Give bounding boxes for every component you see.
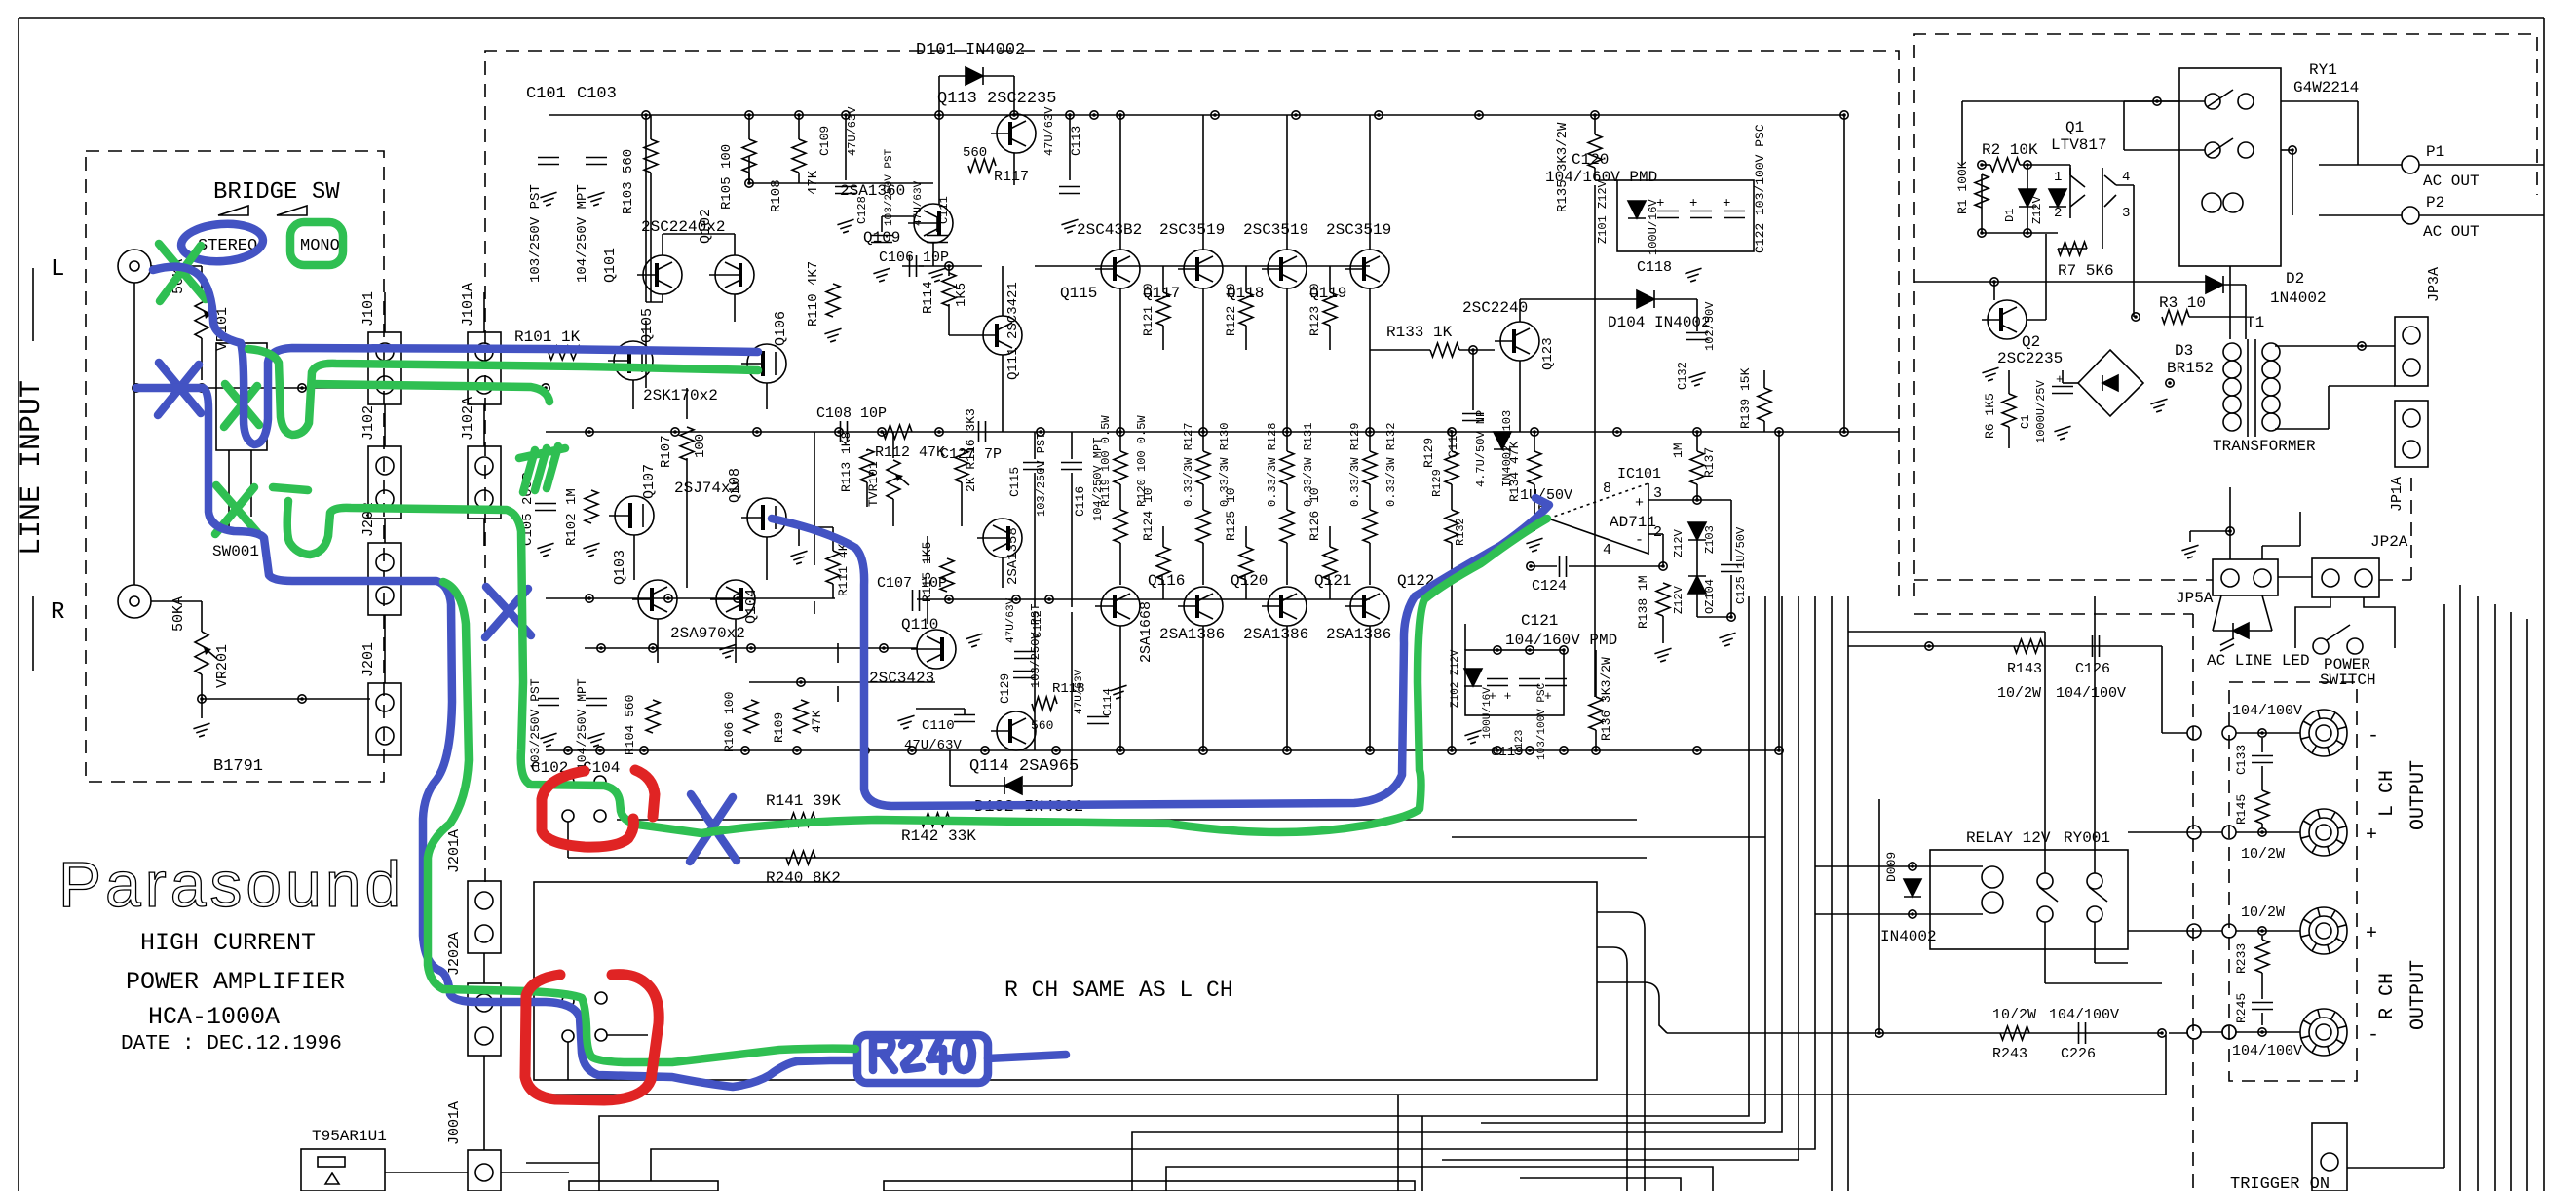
svg-text:JP1A: JP1A	[2389, 477, 2406, 512]
svg-text:T95AR1U1: T95AR1U1	[312, 1128, 387, 1145]
svg-text:Q1: Q1	[2065, 119, 2084, 136]
svg-text:Q123: Q123	[1540, 337, 1556, 370]
svg-text:D101 IN4002: D101 IN4002	[916, 41, 1025, 59]
transistor Q117	[1178, 250, 1223, 288]
transistor Q119	[1345, 250, 1389, 288]
annotation red loop around C102/C104	[542, 770, 655, 847]
svg-text:SW001: SW001	[212, 543, 259, 560]
svg-text:2SC43B2: 2SC43B2	[1077, 221, 1142, 239]
resistor Q118l	[1280, 510, 1294, 543]
ground	[1685, 268, 1701, 282]
annotation green path to R240 callout	[428, 582, 855, 1062]
svg-text:R136 3K3/2W: R136 3K3/2W	[1599, 657, 1613, 741]
diode D1b	[2049, 189, 2066, 207]
resistor R122	[1239, 292, 1253, 326]
R out -	[2300, 1009, 2347, 1056]
svg-text:C121: C121	[1521, 612, 1558, 630]
svg-text:C129: C129	[998, 673, 1012, 704]
P2 connector	[2402, 207, 2419, 224]
svg-text:C101: C101	[526, 85, 566, 103]
svg-text:AC LINE LED: AC LINE LED	[2207, 652, 2310, 670]
annotation blue line from R240 box	[988, 1055, 1066, 1058]
annotation blue R240 text	[873, 1039, 972, 1071]
svg-text:1000U/25V: 1000U/25V	[2034, 379, 2048, 443]
svg-text:Q121: Q121	[1314, 572, 1351, 590]
svg-text:IN4002: IN4002	[1880, 928, 1937, 945]
resistor R126	[1323, 547, 1337, 580]
resistor R123	[1323, 292, 1337, 326]
svg-text:Q103: Q103	[612, 550, 628, 585]
connector J101	[368, 332, 401, 404]
svg-text:R101 1K: R101 1K	[514, 328, 581, 346]
capacitor C103	[586, 158, 607, 165]
annotation green path J102A to opamp (long)	[273, 487, 1547, 833]
svg-text:47K: 47K	[810, 710, 824, 733]
svg-text:8: 8	[1603, 480, 1611, 497]
wire L jack to VR101	[151, 265, 202, 267]
svg-text:2SA970x2: 2SA970x2	[670, 625, 745, 642]
svg-text:104/100V: 104/100V	[2049, 1007, 2119, 1023]
svg-text:J102: J102	[360, 405, 377, 441]
resistor R102	[585, 490, 598, 523]
transistor Q116	[1095, 587, 1140, 626]
capacitor C119a	[1487, 679, 1508, 686]
diode Z101	[1628, 201, 1646, 218]
annotation green box around MONO	[290, 222, 343, 265]
svg-text:J101A: J101A	[460, 283, 476, 327]
svg-text:C1: C1	[2019, 415, 2032, 429]
svg-text:JP5A: JP5A	[2176, 590, 2214, 607]
ground	[1688, 372, 1705, 386]
resistor Q119l	[1363, 510, 1377, 543]
transistor Q107	[609, 496, 654, 535]
svg-text:10/2W: 10/2W	[2241, 904, 2285, 921]
svg-text:Z12V: Z12V	[1672, 585, 1686, 614]
connector J102	[368, 446, 401, 519]
input net horizontal	[136, 387, 546, 389]
ground	[928, 268, 945, 282]
capacitor C111	[927, 236, 948, 243]
resistor Q115u	[1114, 451, 1127, 484]
svg-text:C125 1U/50V: C125 1U/50V	[1734, 526, 1748, 604]
svg-text:Q114 2SA965: Q114 2SA965	[969, 757, 1079, 776]
svg-text:R106 100: R106 100	[722, 692, 737, 752]
svg-text:R119 100 0.5W: R119 100 0.5W	[1099, 415, 1113, 507]
svg-text:R145: R145	[2234, 794, 2249, 825]
resistor R132a	[1445, 510, 1458, 543]
ground	[587, 192, 604, 206]
resistor R129a	[1445, 451, 1458, 484]
resistor R108	[792, 139, 806, 173]
diode D1	[2019, 189, 2036, 207]
wire L jack down to R jack	[133, 283, 135, 585]
diode D101	[966, 67, 983, 85]
svg-text:R117: R117	[994, 169, 1029, 185]
annotation green X at SW001	[215, 485, 257, 534]
svg-text:R112 47K: R112 47K	[875, 444, 945, 461]
svg-text:1K5: 1K5	[954, 283, 969, 307]
svg-text:J102A: J102A	[460, 397, 476, 441]
svg-text:T1: T1	[2246, 314, 2264, 331]
svg-text:560: 560	[963, 145, 987, 161]
ground	[719, 644, 736, 658]
svg-text:2SC2235: 2SC2235	[1997, 350, 2063, 367]
resistor R107	[680, 427, 694, 460]
resistor R104	[646, 700, 660, 733]
ground	[2150, 399, 2167, 412]
svg-text:R137: R137	[1702, 447, 1717, 478]
resistor R114	[942, 273, 956, 306]
svg-text:10/2W: 10/2W	[1992, 1007, 2036, 1023]
resistor Q115l	[1114, 510, 1127, 543]
transistor Q101	[637, 255, 682, 294]
svg-text:100U/16V: 100U/16V	[1482, 687, 1494, 739]
capacitor C109	[835, 187, 856, 194]
ground	[824, 328, 841, 342]
J202A pads	[562, 992, 607, 1042]
svg-text:R113 1K8: R113 1K8	[839, 432, 853, 492]
resistor R233	[2255, 940, 2269, 973]
annotation blue R240 callout box	[857, 1035, 988, 1083]
J column wires	[385, 292, 484, 683]
svg-text:104/100V: 104/100V	[2232, 1043, 2302, 1059]
svg-text:104/250V MPT: 104/250V MPT	[575, 678, 589, 770]
ground	[897, 715, 914, 729]
diode D3d	[2102, 375, 2118, 391]
svg-text:Q106: Q106	[773, 311, 789, 346]
bottom pcb boxes	[569, 1181, 1415, 1191]
svg-text:2K R116 3K3: 2K R116 3K3	[964, 408, 978, 492]
capacitor C124	[1560, 556, 1567, 577]
svg-text:R138 1M: R138 1M	[1636, 575, 1650, 629]
resistor R143	[2014, 639, 2043, 653]
ground	[2054, 426, 2070, 440]
svg-text:C106 10P: C106 10P	[879, 250, 949, 266]
annotation blue X at R141	[690, 794, 737, 862]
svg-text:-: -	[1635, 532, 1644, 549]
svg-text:D3: D3	[2175, 342, 2193, 360]
connector J202	[368, 543, 401, 615]
ground	[837, 219, 853, 233]
resistor Q117l	[1196, 510, 1210, 543]
svg-text:Q111 2SC3421: Q111 2SC3421	[1005, 282, 1021, 380]
svg-text:LINE INPUT: LINE INPUT	[16, 380, 49, 556]
resistor VR101	[195, 295, 208, 338]
capacitor C128	[871, 236, 892, 243]
emitter rail	[585, 647, 917, 649]
connector J202A	[468, 983, 501, 1056]
svg-text:R107: R107	[659, 435, 674, 468]
svg-text:R143: R143	[2007, 661, 2042, 677]
svg-text:103/250V PST: 103/250V PST	[528, 184, 544, 283]
ground	[1061, 219, 1078, 233]
resistor Q119u	[1363, 451, 1377, 484]
connector JP1A	[2395, 401, 2428, 467]
transistor Q114	[991, 711, 1036, 750]
resistor R124	[1156, 547, 1170, 580]
ground	[873, 268, 890, 282]
capacitor C112	[1014, 652, 1036, 659]
svg-text:Q115: Q115	[1060, 285, 1097, 302]
svg-text:D1: D1	[2003, 209, 2017, 222]
svg-text:P1: P1	[2426, 143, 2444, 161]
resistor Q118u	[1280, 451, 1294, 484]
ground	[2181, 545, 2198, 558]
svg-text:Z12V: Z12V	[1672, 528, 1686, 557]
resistor R116	[955, 449, 968, 482]
svg-text:100: 100	[693, 434, 708, 458]
resistor R103	[644, 139, 658, 173]
resistor R105	[742, 139, 756, 173]
transistor Q120	[1178, 587, 1223, 626]
annotation blue path input to Q105	[153, 267, 758, 444]
svg-text:104/100V: 104/100V	[2232, 703, 2302, 719]
svg-text:2SC3519: 2SC3519	[1326, 221, 1391, 239]
svg-text:OUTPUT: OUTPUT	[2407, 760, 2430, 830]
svg-text:100U/16V: 100U/16V	[1647, 199, 1660, 255]
svg-text:C114: C114	[1101, 688, 1115, 716]
resistor R134	[1528, 451, 1541, 484]
resistor R145	[2255, 790, 2269, 824]
mid rail	[546, 431, 1899, 433]
svg-text:104/100V: 104/100V	[2056, 685, 2126, 702]
capacitor C127	[979, 421, 986, 442]
svg-text:AC OUT: AC OUT	[2423, 173, 2480, 190]
svg-text:Q113 2SC2235: Q113 2SC2235	[937, 90, 1056, 108]
svg-text:R3 10: R3 10	[2159, 294, 2206, 312]
svg-text:RELAY 12V: RELAY 12V	[1966, 829, 2051, 847]
lower mid rail	[546, 597, 835, 599]
resistor R112	[883, 425, 912, 439]
svg-text:0.33/3W R132: 0.33/3W R132	[1384, 423, 1398, 507]
svg-text:Q118: Q118	[1227, 285, 1264, 302]
svg-text:C124: C124	[1532, 578, 1567, 595]
capacitor C129	[1013, 672, 1035, 678]
transistor Q113	[991, 114, 1036, 153]
svg-text:10/2W: 10/2W	[2241, 846, 2285, 863]
svg-text:B1791: B1791	[213, 757, 263, 776]
RCA jack L input	[118, 250, 151, 283]
svg-text:R233: R233	[2234, 943, 2249, 974]
svg-text:2SC3519: 2SC3519	[1243, 221, 1308, 239]
resistor R7	[2058, 242, 2087, 255]
svg-text:R CH SAME AS L CH: R CH SAME AS L CH	[1004, 978, 1233, 1003]
svg-text:-: -	[2368, 1024, 2379, 1047]
svg-text:Parasound: Parasound	[58, 848, 404, 920]
annotation green line y396 with ground scribble	[312, 384, 549, 402]
svg-text:R132: R132	[1454, 518, 1467, 546]
top supply rail	[549, 114, 1844, 116]
svg-text:R102 1M: R102 1M	[564, 488, 580, 546]
svg-text:C115: C115	[1007, 467, 1022, 497]
svg-text:Q101: Q101	[602, 248, 619, 283]
transistor Q123	[1495, 322, 1539, 361]
svg-text:BRIDGE SW: BRIDGE SW	[213, 179, 340, 206]
capacitor C125	[1721, 565, 1742, 572]
svg-text:Q116: Q116	[1148, 572, 1185, 590]
transistor Q108	[741, 498, 786, 537]
capacitor C123b	[1545, 679, 1567, 686]
svg-text:BR152: BR152	[2167, 360, 2214, 377]
svg-text:MONO: MONO	[300, 237, 340, 255]
capacitor C107	[913, 590, 920, 611]
svg-text:POWER AMPLIFIER: POWER AMPLIFIER	[126, 968, 345, 996]
ground	[587, 733, 604, 747]
svg-text:2SC3423: 2SC3423	[869, 670, 934, 687]
svg-text:LTV817: LTV817	[2051, 136, 2107, 154]
svg-text:Q102: Q102	[698, 209, 714, 244]
svg-text:R7 5K6: R7 5K6	[2058, 262, 2114, 280]
capacitor C105	[535, 504, 556, 511]
svg-text:2SC3519: 2SC3519	[1159, 221, 1225, 239]
switch SW001	[202, 338, 267, 526]
capacitor C110	[954, 715, 975, 722]
bridge rectifier D3	[2078, 350, 2143, 416]
resistor R133	[1430, 343, 1459, 357]
resistor R139	[1758, 388, 1771, 421]
capacitor C116	[1061, 463, 1082, 470]
ground	[1464, 730, 1481, 744]
svg-text:3: 3	[2122, 206, 2130, 221]
bottom bus interchange	[526, 596, 2166, 1191]
svg-text:Q120: Q120	[1231, 572, 1268, 590]
diode OZ104	[1688, 576, 1706, 594]
svg-text:D104 IN4002: D104 IN4002	[1608, 314, 1711, 331]
bridge arrows	[218, 206, 307, 215]
diode D102	[1004, 777, 1022, 794]
resistor R136	[1589, 697, 1603, 730]
resistor R113	[860, 449, 874, 482]
ground	[583, 543, 599, 557]
L out +	[2300, 809, 2347, 856]
svg-text:R133 1K: R133 1K	[1386, 324, 1453, 341]
svg-text:IC101: IC101	[1617, 466, 1661, 482]
transistor Q104	[710, 580, 755, 619]
svg-text:C111: C111	[937, 196, 951, 224]
resistor R240	[786, 851, 815, 864]
svg-text:OUTPUT: OUTPUT	[2407, 960, 2430, 1030]
svg-text:R6 1K5: R6 1K5	[1983, 393, 1997, 439]
svg-text:R141 39K: R141 39K	[766, 792, 841, 810]
svg-text:Z103: Z103	[1703, 525, 1717, 554]
svg-text:R109: R109	[772, 712, 786, 743]
bridge sw dashed box	[86, 151, 384, 782]
annotation blue path net to R240	[136, 388, 853, 1087]
svg-text:+: +	[1635, 495, 1644, 512]
svg-text:47U/63V: 47U/63V	[913, 180, 925, 226]
svg-text:Z101 Z12V: Z101 Z12V	[1596, 179, 1610, 244]
R channel block	[534, 882, 1597, 1080]
resistor R115	[940, 558, 954, 592]
svg-text:R120 100 0.5W: R120 100 0.5W	[1135, 415, 1149, 507]
svg-text:3: 3	[1653, 485, 1662, 502]
svg-text:47U/63V: 47U/63V	[846, 106, 859, 156]
svg-text:C123: C123	[1514, 730, 1526, 755]
annotation blue X on input net	[158, 363, 201, 415]
svg-text:Z12V: Z12V	[2030, 195, 2044, 224]
resistor TVR101	[887, 460, 900, 499]
svg-text:R1 100K: R1 100K	[1955, 161, 1970, 214]
svg-text:R CH: R CH	[2376, 973, 2399, 1019]
svg-text:0.33/3W R127: 0.33/3W R127	[1182, 423, 1195, 507]
capacitor C126	[2093, 635, 2100, 657]
svg-text:C122 103/100V PSC: C122 103/100V PSC	[1753, 124, 1767, 253]
transistor Q121	[1262, 587, 1307, 626]
svg-text:2SK170x2: 2SK170x2	[643, 387, 718, 404]
svg-text:2SC2240: 2SC2240	[1462, 299, 1528, 317]
transistor Q102	[709, 255, 754, 294]
ground	[537, 543, 553, 557]
ground	[540, 192, 556, 206]
svg-text:Q2: Q2	[2022, 333, 2040, 351]
capacitor C114	[1087, 717, 1109, 724]
capacitor C123a	[1519, 679, 1540, 686]
resistor R3	[2162, 310, 2189, 324]
svg-text:L CH: L CH	[2376, 770, 2399, 817]
capacitor C118b	[1690, 211, 1712, 218]
op-amp IC101 AD711	[1548, 483, 1697, 566]
svg-text:HCA-1000A: HCA-1000A	[148, 1003, 280, 1031]
capacitor C118c	[1724, 211, 1745, 218]
svg-text:+: +	[1723, 196, 1730, 211]
capacitor R245	[2252, 1003, 2273, 1010]
JP1A dashed stub	[2410, 478, 2412, 580]
svg-text:2SA1668: 2SA1668	[1138, 601, 1155, 663]
long dashed vertical	[2192, 614, 2194, 1191]
annotation green path input to Q105 (upper)	[248, 349, 758, 435]
ground	[966, 634, 982, 647]
svg-text:R103 560: R103 560	[621, 149, 636, 214]
svg-text:R108: R108	[769, 179, 784, 212]
svg-text:2SA1358: 2SA1358	[1005, 527, 1021, 585]
capacitor C132	[1686, 333, 1708, 340]
svg-text:TRIGGER ON: TRIGGER ON	[2230, 1175, 2330, 1191]
RCA jack R input	[118, 585, 151, 618]
svg-text:R142 33K: R142 33K	[901, 827, 976, 845]
svg-text:4: 4	[1603, 542, 1611, 558]
transistor Q103	[632, 580, 677, 619]
capacitor C113	[1059, 187, 1080, 194]
svg-text:2SA1386: 2SA1386	[1326, 626, 1391, 643]
resistor R243	[2000, 1026, 2029, 1040]
capacitor C118a	[1657, 211, 1679, 218]
capacitor C133	[2252, 756, 2273, 763]
svg-text:103/250V PST: 103/250V PST	[528, 678, 543, 770]
svg-text:AC OUT: AC OUT	[2423, 223, 2480, 241]
capacitor C226	[2079, 1022, 2086, 1044]
capacitor C101	[538, 158, 559, 165]
diode LED	[2233, 623, 2249, 638]
connector JP2A	[2312, 558, 2379, 597]
svg-text:2SA1386: 2SA1386	[1159, 626, 1225, 643]
svg-text:Q117: Q117	[1143, 285, 1180, 302]
svg-text:J101: J101	[360, 291, 377, 327]
connector J101A	[468, 332, 501, 404]
resistor VR201	[195, 632, 208, 674]
ground	[1982, 367, 1998, 381]
svg-text:R240 8K2: R240 8K2	[766, 869, 841, 887]
svg-text:RY1: RY1	[2309, 61, 2337, 79]
ground	[540, 733, 556, 747]
transistor Q112	[977, 519, 1022, 557]
resistor R110	[826, 284, 840, 317]
svg-text:JP3A: JP3A	[2426, 267, 2443, 302]
svg-text:R2 10K: R2 10K	[1982, 141, 2038, 159]
svg-text:Q119: Q119	[1309, 285, 1346, 302]
main vertical wires	[646, 115, 1844, 750]
resistor R141	[786, 813, 815, 826]
svg-text:C116: C116	[1073, 486, 1087, 517]
